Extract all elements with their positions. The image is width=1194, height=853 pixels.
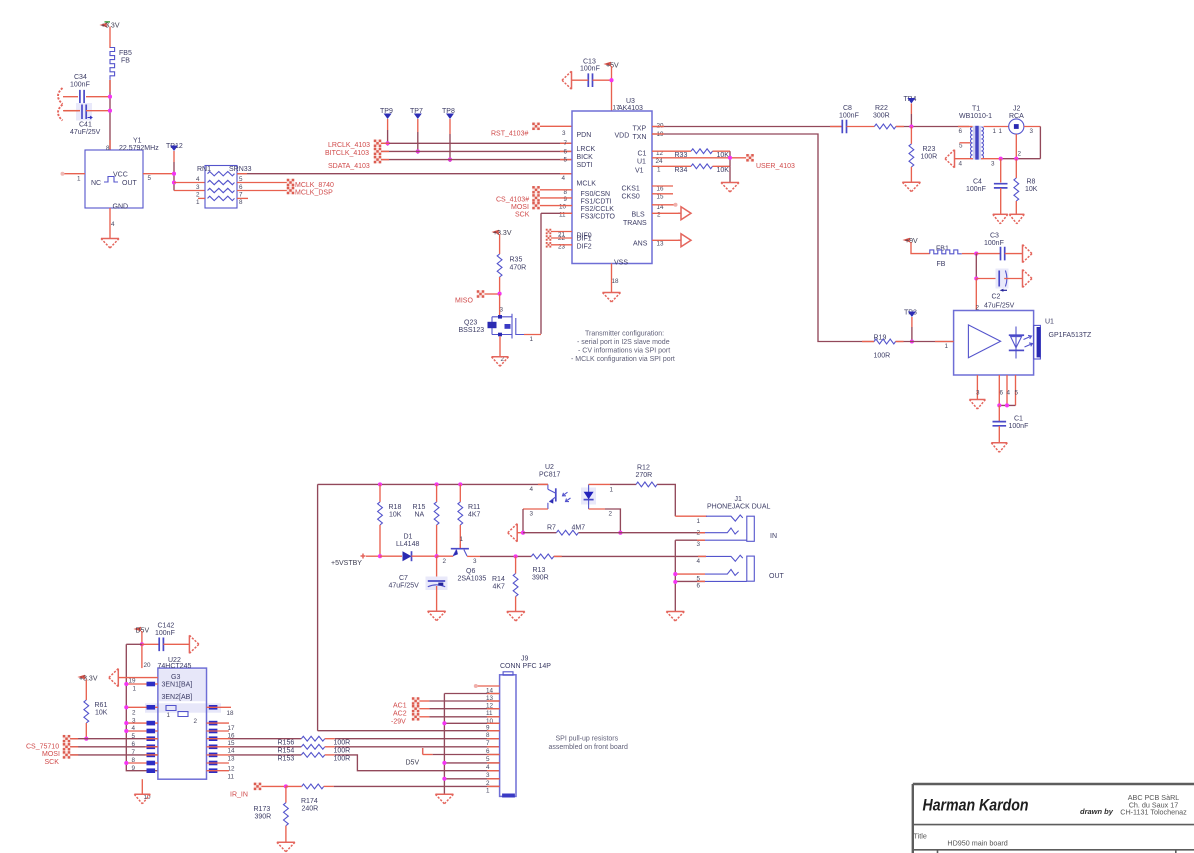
node xyxy=(386,141,390,145)
svg-text:100R: 100R xyxy=(334,740,351,747)
capacitor C2 xyxy=(976,269,1022,310)
power D5V tap xyxy=(406,748,500,767)
svg-text:MOSI: MOSI xyxy=(511,204,529,211)
svg-text:22.5792MHz: 22.5792MHz xyxy=(119,145,159,152)
wire xyxy=(174,183,205,191)
svg-text:C8: C8 xyxy=(843,105,852,112)
svg-text:8: 8 xyxy=(486,732,490,739)
svg-text:SRN33: SRN33 xyxy=(229,166,252,173)
svg-text:BSS123: BSS123 xyxy=(459,327,485,334)
svg-text:C142: C142 xyxy=(158,623,175,630)
IC U3 AK4103 xyxy=(572,98,652,264)
wire xyxy=(611,66,613,111)
svg-text:47uF/25V: 47uF/25V xyxy=(984,303,1015,310)
U1 pins 6 4 5 xyxy=(999,375,1018,405)
svg-text:WB1010-1: WB1010-1 xyxy=(959,113,992,120)
node xyxy=(84,737,88,741)
svg-text:3: 3 xyxy=(991,161,995,168)
U3 right pin numbers xyxy=(612,123,665,286)
svg-text:SDATA_4103: SDATA_4103 xyxy=(328,163,370,170)
svg-text:R13: R13 xyxy=(533,567,546,574)
node xyxy=(997,403,1009,407)
transformer T1 WB1010-1 xyxy=(959,106,992,160)
svg-text:3: 3 xyxy=(486,772,490,779)
svg-text:SDTI: SDTI xyxy=(577,162,593,169)
svg-text:R153: R153 xyxy=(278,756,295,763)
ferrite bead FB5 xyxy=(110,48,132,80)
U22 pin 2 wire xyxy=(124,705,158,709)
net IR_IN xyxy=(230,783,286,799)
J1 pin 3 wire xyxy=(675,540,747,611)
note text xyxy=(571,331,675,364)
svg-text:2SA1035: 2SA1035 xyxy=(458,576,487,583)
T1 pin labels xyxy=(959,128,1003,168)
power +3.3V xyxy=(79,675,98,700)
svg-text:D1: D1 xyxy=(404,534,413,541)
svg-text:47uF/25V: 47uF/25V xyxy=(389,583,420,590)
U1 pin 3 / ground xyxy=(976,375,980,399)
U3 DIF pins xyxy=(546,229,572,248)
node xyxy=(448,158,452,162)
test point TP8 xyxy=(442,108,455,162)
svg-text:4: 4 xyxy=(196,176,200,183)
svg-text:NA: NA xyxy=(415,512,425,519)
ground xyxy=(508,524,523,542)
ground xyxy=(109,669,158,687)
power D5V xyxy=(136,627,150,644)
test point TP3 xyxy=(904,310,917,342)
svg-text:300R: 300R xyxy=(873,113,890,120)
svg-text:10K: 10K xyxy=(1025,186,1038,193)
svg-text:R14: R14 xyxy=(492,576,505,583)
svg-text:U1: U1 xyxy=(1045,319,1054,326)
U3 right pin names xyxy=(615,126,648,248)
U22 left pin numbers xyxy=(129,678,137,772)
svg-text:100R: 100R xyxy=(921,154,938,161)
svg-text:RST_4103#: RST_4103# xyxy=(491,131,528,138)
U22 pin 3 wire xyxy=(124,721,158,725)
svg-text:NC: NC xyxy=(91,180,101,187)
svg-text:1: 1 xyxy=(993,128,997,135)
svg-text:100nF: 100nF xyxy=(984,240,1004,247)
capacitor C142 xyxy=(142,623,189,652)
svg-text:FS1/CDTI: FS1/CDTI xyxy=(581,199,612,206)
power +9V xyxy=(905,238,930,254)
svg-text:2: 2 xyxy=(697,530,701,537)
node xyxy=(108,95,112,99)
svg-text:9: 9 xyxy=(132,765,136,772)
U22 pin 10 / ground xyxy=(142,779,151,801)
svg-text:C1: C1 xyxy=(638,151,647,158)
resistor R13 xyxy=(531,554,706,582)
svg-text:CKS1: CKS1 xyxy=(622,186,640,193)
node xyxy=(609,78,613,82)
node xyxy=(378,482,462,486)
title block border xyxy=(913,784,1194,853)
crystal oscillator Y1 xyxy=(85,138,159,211)
resistor R14 xyxy=(492,556,518,611)
wire xyxy=(467,555,531,557)
svg-text:FB5: FB5 xyxy=(119,50,132,57)
U2 pin 3 wire xyxy=(523,509,548,533)
ground xyxy=(1023,245,1033,263)
svg-text:TXP: TXP xyxy=(633,126,647,133)
ground xyxy=(993,214,1008,224)
svg-text:TXN: TXN xyxy=(633,134,647,141)
svg-text:390R: 390R xyxy=(255,814,272,821)
svg-text:CS_4103#: CS_4103# xyxy=(496,197,529,204)
svg-text:4: 4 xyxy=(959,161,963,168)
net USER_4103 xyxy=(652,151,795,170)
svg-text:BICK: BICK xyxy=(577,154,594,161)
node xyxy=(999,157,1019,161)
svg-text:4: 4 xyxy=(530,486,534,493)
svg-text:3: 3 xyxy=(562,130,566,137)
svg-text:1: 1 xyxy=(697,518,701,525)
svg-text:100nF: 100nF xyxy=(966,186,986,193)
svg-text:OUT: OUT xyxy=(769,573,785,580)
svg-text:1: 1 xyxy=(945,343,949,350)
net AC2 xyxy=(393,705,500,718)
svg-text:1: 1 xyxy=(196,199,200,206)
title text Harman Kardon xyxy=(923,797,1029,815)
Q23 pin 2 / ground xyxy=(500,336,505,363)
svg-text:4: 4 xyxy=(1007,390,1011,397)
ground xyxy=(435,794,453,804)
U22 right pin numbers xyxy=(227,710,236,781)
svg-text:10K: 10K xyxy=(389,512,402,519)
ground xyxy=(1009,214,1024,224)
node xyxy=(172,172,176,185)
svg-text:5: 5 xyxy=(959,143,963,150)
node xyxy=(416,149,420,153)
svg-text:9: 9 xyxy=(564,196,568,203)
resistor R34 xyxy=(652,164,730,174)
ground xyxy=(189,635,199,653)
node xyxy=(284,784,288,788)
svg-text:R22: R22 xyxy=(875,105,888,112)
J1 OUT sleeve xyxy=(747,556,785,581)
svg-text:5: 5 xyxy=(1015,390,1019,397)
svg-text:R23: R23 xyxy=(923,146,936,153)
resistor R153 xyxy=(207,753,500,771)
U3 pin 18 / ground xyxy=(611,264,613,293)
node xyxy=(378,554,382,558)
U22 pin 1 wire xyxy=(124,682,158,686)
svg-text:C13: C13 xyxy=(583,59,596,66)
svg-text:74HCT245: 74HCT245 xyxy=(158,663,192,670)
U3 pin 13 ANS arrow xyxy=(652,234,691,247)
U22 pin 18 stub xyxy=(207,706,232,708)
ground xyxy=(666,612,684,622)
svg-text:5: 5 xyxy=(486,756,490,763)
resistor network RN1 SRN33 xyxy=(197,166,252,209)
svg-text:drawn by: drawn by xyxy=(1080,807,1114,816)
svg-text:100nF: 100nF xyxy=(1009,423,1029,430)
resistor R156 xyxy=(207,736,500,746)
U3 pin 16 stub xyxy=(652,185,673,187)
svg-text:18: 18 xyxy=(612,278,620,285)
T1 pin 6 wire xyxy=(969,126,973,128)
wire rail vertical xyxy=(317,484,319,730)
svg-text:VSS: VSS xyxy=(614,260,628,267)
svg-text:+3.3V: +3.3V xyxy=(79,676,98,683)
node xyxy=(974,276,978,280)
ground xyxy=(492,357,509,367)
J9 pin 9 wire xyxy=(442,721,499,725)
capacitor C1 xyxy=(993,405,1029,442)
U3 pin 15 stub xyxy=(652,193,673,195)
J9 pin 4 wire xyxy=(442,761,499,765)
ground xyxy=(134,794,150,804)
svg-text:J2: J2 xyxy=(1013,106,1021,113)
resistor R19 xyxy=(874,335,896,360)
svg-text:20: 20 xyxy=(144,662,152,669)
svg-text:CH-1131 Tolochenaz: CH-1131 Tolochenaz xyxy=(1120,808,1187,817)
svg-text:AC1: AC1 xyxy=(393,703,407,710)
svg-text:GP1FA513TZ: GP1FA513TZ xyxy=(1049,332,1093,339)
svg-text:C4: C4 xyxy=(973,179,982,186)
net LRCLK_4103 xyxy=(328,140,572,149)
svg-text:390R: 390R xyxy=(532,575,549,582)
U22 pin 16 stub xyxy=(207,730,230,732)
svg-text:SCK: SCK xyxy=(45,759,60,766)
RN1 pin labels xyxy=(196,176,243,206)
svg-text:C7: C7 xyxy=(399,575,408,582)
svg-text:-29V: -29V xyxy=(391,719,406,726)
svg-text:MCLK_DSP: MCLK_DSP xyxy=(295,190,333,197)
capacitor C7 xyxy=(389,556,448,611)
title label xyxy=(914,832,927,841)
U3 pin 14 stub xyxy=(652,203,678,207)
svg-text:4: 4 xyxy=(697,558,701,565)
svg-text:J9: J9 xyxy=(521,656,529,663)
svg-text:470R: 470R xyxy=(510,265,527,272)
svg-text:V1: V1 xyxy=(635,168,644,175)
svg-text:18: 18 xyxy=(227,710,235,717)
svg-text:5: 5 xyxy=(148,175,152,182)
svg-text:IN: IN xyxy=(770,533,777,540)
svg-text:6: 6 xyxy=(959,128,963,135)
svg-text:6: 6 xyxy=(1000,390,1004,397)
resistor R23 xyxy=(909,127,937,183)
svg-text:R154: R154 xyxy=(278,748,295,755)
net MCLK_8740 xyxy=(237,179,334,189)
U3 pin 2 BLS arrow xyxy=(652,207,691,220)
T1 pin 4 / ground xyxy=(945,150,973,168)
power +5V xyxy=(606,62,619,69)
svg-text:LL4148: LL4148 xyxy=(396,541,419,548)
RCA jack J2 xyxy=(1009,106,1024,135)
svg-text:G3: G3 xyxy=(171,674,180,681)
resistor R35 xyxy=(497,254,526,294)
capacitor C34 xyxy=(63,74,110,104)
svg-text:U3: U3 xyxy=(626,98,635,105)
svg-text:3: 3 xyxy=(530,511,534,518)
ground xyxy=(101,239,119,249)
svg-text:- serial port in I2S slave mod: - serial port in I2S slave mode xyxy=(577,339,670,346)
svg-text:4: 4 xyxy=(562,175,566,182)
net MCLK_DSP xyxy=(237,187,333,197)
svg-text:IR_IN: IR_IN xyxy=(230,792,248,799)
svg-text:C34: C34 xyxy=(74,74,87,81)
ground xyxy=(721,183,739,193)
svg-text:T1: T1 xyxy=(972,106,980,113)
U22 pin 4 wire xyxy=(124,729,158,733)
wire TXN net xyxy=(652,134,874,342)
svg-text:LRCLK_4103: LRCLK_4103 xyxy=(328,142,370,149)
svg-text:100nF: 100nF xyxy=(155,630,175,637)
node xyxy=(728,156,732,160)
net CS_75710 xyxy=(26,735,158,751)
U2 pin 2 wire xyxy=(589,509,621,533)
svg-text:GND: GND xyxy=(113,204,129,211)
Y1 pin 4 / ground xyxy=(110,208,115,239)
svg-text:14: 14 xyxy=(228,748,236,755)
ground xyxy=(902,182,920,192)
wire rail +5VSTBY top xyxy=(318,483,548,485)
wire xyxy=(437,555,454,557)
resistor R18 xyxy=(378,484,402,556)
U3 pin 11 wire FS3/CDTO xyxy=(541,213,572,334)
J9 pin 2 wire xyxy=(442,777,499,781)
svg-text:R11: R11 xyxy=(468,504,480,511)
svg-text:Q23: Q23 xyxy=(464,320,477,327)
svg-text:C2: C2 xyxy=(992,294,1001,301)
svg-text:11: 11 xyxy=(486,710,493,717)
svg-text:PDN: PDN xyxy=(577,132,592,139)
svg-text:CS_75710: CS_75710 xyxy=(26,744,59,751)
T1 pin 5 stub xyxy=(960,142,971,144)
svg-text:Q6: Q6 xyxy=(466,568,475,575)
wire MCLK net xyxy=(237,173,572,175)
T1 pin 1 wire xyxy=(984,126,1009,128)
svg-text:1: 1 xyxy=(657,166,661,173)
svg-text:ANS: ANS xyxy=(633,241,648,248)
ferrite bead FB1 xyxy=(930,246,977,268)
svg-text:17: 17 xyxy=(613,105,621,112)
wire xyxy=(500,294,504,317)
svg-text:100nF: 100nF xyxy=(839,113,859,120)
svg-text:R156: R156 xyxy=(278,740,295,747)
svg-text:HD950 main board: HD950 main board xyxy=(947,839,1007,848)
svg-text:24: 24 xyxy=(656,158,664,165)
svg-text:1: 1 xyxy=(133,686,137,693)
svg-text:7: 7 xyxy=(239,192,243,199)
wire xyxy=(975,254,977,279)
optocoupler U2 PC817 xyxy=(539,464,596,509)
ground xyxy=(277,842,295,852)
J1 IN ring contact xyxy=(705,528,739,534)
svg-text:6: 6 xyxy=(697,583,701,590)
svg-text:MISO: MISO xyxy=(455,298,473,305)
test point TP9 xyxy=(380,108,393,146)
test point TP7 xyxy=(410,108,423,154)
svg-text:R61: R61 xyxy=(95,702,108,709)
diode D1 LL4148 xyxy=(380,534,437,562)
svg-text:270R: 270R xyxy=(636,472,653,479)
optical transmitter U1 GP1FA513TZ xyxy=(954,311,1092,376)
capacitor C8 xyxy=(839,105,859,133)
svg-text:13: 13 xyxy=(228,755,236,762)
net AC1 xyxy=(393,697,500,709)
IC U22 74HCT245 xyxy=(145,657,221,779)
resistor R7 xyxy=(523,525,705,536)
wire xyxy=(1001,158,1041,160)
resistor R174 xyxy=(286,784,500,813)
svg-text:CKS0: CKS0 xyxy=(622,193,640,200)
svg-text:5: 5 xyxy=(564,157,568,164)
svg-text:10K: 10K xyxy=(717,167,730,174)
off-page connector xyxy=(58,88,63,121)
title text HD950 main board xyxy=(947,839,1007,848)
svg-text:U2: U2 xyxy=(545,464,554,471)
svg-text:8: 8 xyxy=(106,145,110,152)
net MOSI xyxy=(42,743,158,758)
svg-text:3: 3 xyxy=(697,541,701,548)
net MISO xyxy=(455,290,500,304)
svg-text:1: 1 xyxy=(530,336,534,343)
svg-text:240R: 240R xyxy=(302,806,319,813)
svg-text:+5VSTBY: +5VSTBY xyxy=(331,560,362,567)
ground xyxy=(1023,270,1033,288)
J9 pin 8 wire xyxy=(318,730,500,732)
U22 pin 17 stub xyxy=(207,722,230,724)
U2 pin 4 wire xyxy=(530,484,548,493)
U3 CS/MOSI/SCK pins xyxy=(496,186,572,218)
svg-text:Transmitter configuration:: Transmitter configuration: xyxy=(585,331,664,338)
svg-text:100nF: 100nF xyxy=(580,66,600,73)
J1 OUT ring contact xyxy=(705,569,739,575)
svg-text:100R: 100R xyxy=(334,748,351,755)
transistor Q23 BSS123 xyxy=(459,314,525,339)
J2 pin 3 wire xyxy=(1024,127,1041,159)
ground xyxy=(991,443,1007,453)
svg-text:R35: R35 xyxy=(510,257,523,264)
wire ground bus xyxy=(444,694,499,795)
net RST_4103# xyxy=(491,123,572,138)
svg-text:6: 6 xyxy=(564,148,568,155)
ground xyxy=(428,611,446,621)
resistor R15 xyxy=(413,484,440,556)
U22 pin 8 wire xyxy=(124,761,158,765)
capacitor C4 xyxy=(966,159,1008,215)
transistor Q6 2SA1035 xyxy=(443,536,487,583)
svg-text:Title: Title xyxy=(914,832,927,841)
svg-text:SPI pull-up resistors: SPI pull-up resistors xyxy=(556,736,619,743)
U3 left pin numbers xyxy=(558,130,568,250)
phonejack J1 pin 1 wire xyxy=(675,516,707,525)
svg-text:11: 11 xyxy=(228,773,235,780)
J1 IN tip contact xyxy=(706,515,743,521)
net SDATA_4103 xyxy=(328,156,572,170)
node xyxy=(974,252,978,256)
svg-text:2: 2 xyxy=(194,718,198,725)
svg-text:2: 2 xyxy=(443,558,447,565)
connector J1 PHONEJACK DUAL xyxy=(707,496,771,511)
title address text xyxy=(1120,793,1187,817)
svg-text:USER_4103: USER_4103 xyxy=(756,163,795,170)
resistor R173 xyxy=(254,786,289,842)
svg-text:R7: R7 xyxy=(547,525,556,532)
svg-text:J1: J1 xyxy=(735,496,743,503)
U22 pin stubs blue xyxy=(147,682,156,773)
U22 right pin stubs blue xyxy=(209,705,218,773)
svg-text:1: 1 xyxy=(486,788,490,795)
connector J9 CONN PFC 14P xyxy=(500,656,552,798)
svg-text:C3: C3 xyxy=(990,233,999,240)
J1 pin 2 label xyxy=(697,530,701,537)
